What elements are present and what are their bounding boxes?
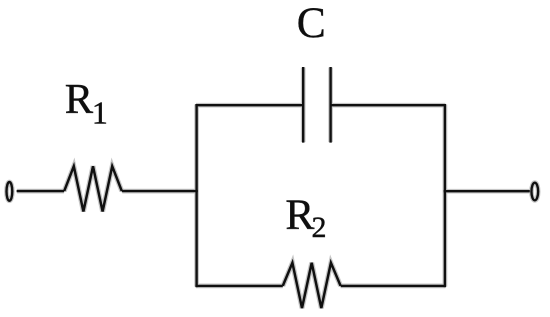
wire capacitor to top-right (331, 104, 446, 106)
wire left branch vertical (node A) (195, 104, 197, 287)
label R1 (65, 76, 108, 130)
terminal 0 (right output) (531, 183, 538, 201)
svg-text:R: R (285, 191, 314, 239)
wire R2 to bottom-right (341, 285, 446, 287)
svg-text:R: R (65, 76, 94, 123)
svg-text:2: 2 (312, 211, 327, 244)
wire bottom-left to R2 (195, 285, 282, 287)
wire left terminal to R1 (17, 190, 65, 192)
wire node B to right terminal (444, 190, 530, 192)
wire right branch vertical (node B) (444, 104, 446, 287)
label R2 (285, 191, 326, 244)
resistor R2 (283, 263, 341, 308)
wire top-left to capacitor (195, 104, 303, 106)
svg-text:1: 1 (92, 95, 108, 131)
svg-text:C: C (297, 0, 326, 47)
capacitor C (303, 67, 330, 143)
resistor R1 (64, 166, 122, 211)
wire R1 to node A (122, 190, 198, 192)
soft-edge underlay layer (gray copies of all strokes for blur emulation) (6, 68, 538, 309)
terminal 0 (left input) (6, 182, 12, 201)
